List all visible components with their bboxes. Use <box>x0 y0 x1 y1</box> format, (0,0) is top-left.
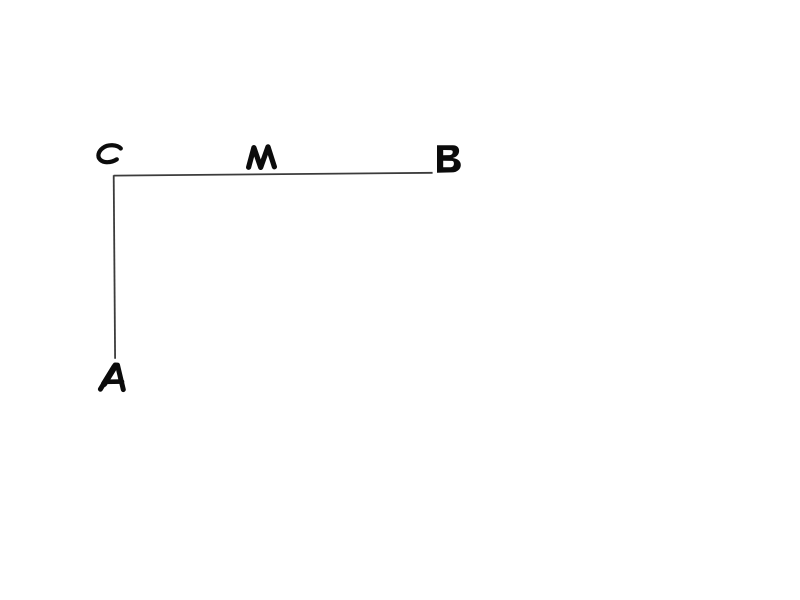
label B <box>437 145 461 173</box>
segment CB (horizontal wire) <box>114 173 433 176</box>
label M <box>249 147 275 168</box>
label C <box>98 145 120 162</box>
label A <box>100 365 123 390</box>
segment CA (vertical wire) <box>114 175 115 359</box>
